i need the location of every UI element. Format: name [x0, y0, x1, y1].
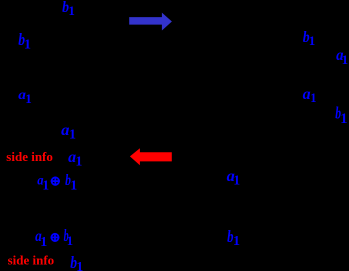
- svg-text:1: 1: [24, 38, 31, 53]
- node a1 left middle: [18, 88, 31, 106]
- svg-text:1: 1: [340, 111, 347, 127]
- node a1 bottom-middle: [227, 168, 241, 187]
- node b1 left upper: [18, 30, 31, 53]
- node b1 right upper: [303, 29, 316, 48]
- svg-text:1: 1: [76, 260, 83, 271]
- red arrow left: [130, 148, 172, 165]
- svg-text:1: 1: [70, 179, 77, 194]
- node a1 right inner lower: [303, 86, 317, 105]
- svg-text:1: 1: [69, 128, 76, 143]
- svg-text:1: 1: [310, 91, 316, 105]
- node a1 left lower: [61, 122, 76, 143]
- node a1 side-info upper: [68, 149, 82, 170]
- svg-text:1: 1: [342, 52, 349, 67]
- svg-text:1: 1: [309, 33, 316, 48]
- node b1 right outer lower: [335, 103, 347, 126]
- svg-text:1: 1: [233, 234, 240, 249]
- node a1 right outer upper: [336, 47, 348, 67]
- label a1 xor b1 lower: [35, 226, 73, 250]
- svg-text:1: 1: [42, 177, 49, 192]
- svg-text:side info: side info: [8, 253, 55, 268]
- svg-text:1: 1: [67, 233, 74, 248]
- svg-text:side info: side info: [6, 149, 53, 164]
- xor symbol lower: [51, 233, 60, 242]
- node b1 bottom-middle: [227, 227, 240, 249]
- node b1 top-left: [62, 0, 75, 18]
- node b1 side-info lower: [70, 253, 83, 271]
- label a1 xor b1 upper: [37, 172, 77, 194]
- xor symbol upper: [51, 177, 60, 186]
- svg-text:1: 1: [233, 172, 240, 187]
- svg-text:1: 1: [75, 155, 82, 170]
- blue arrow right: [129, 13, 172, 31]
- svg-text:1: 1: [25, 91, 32, 106]
- svg-text:1: 1: [68, 3, 75, 18]
- svg-text:1: 1: [40, 235, 47, 250]
